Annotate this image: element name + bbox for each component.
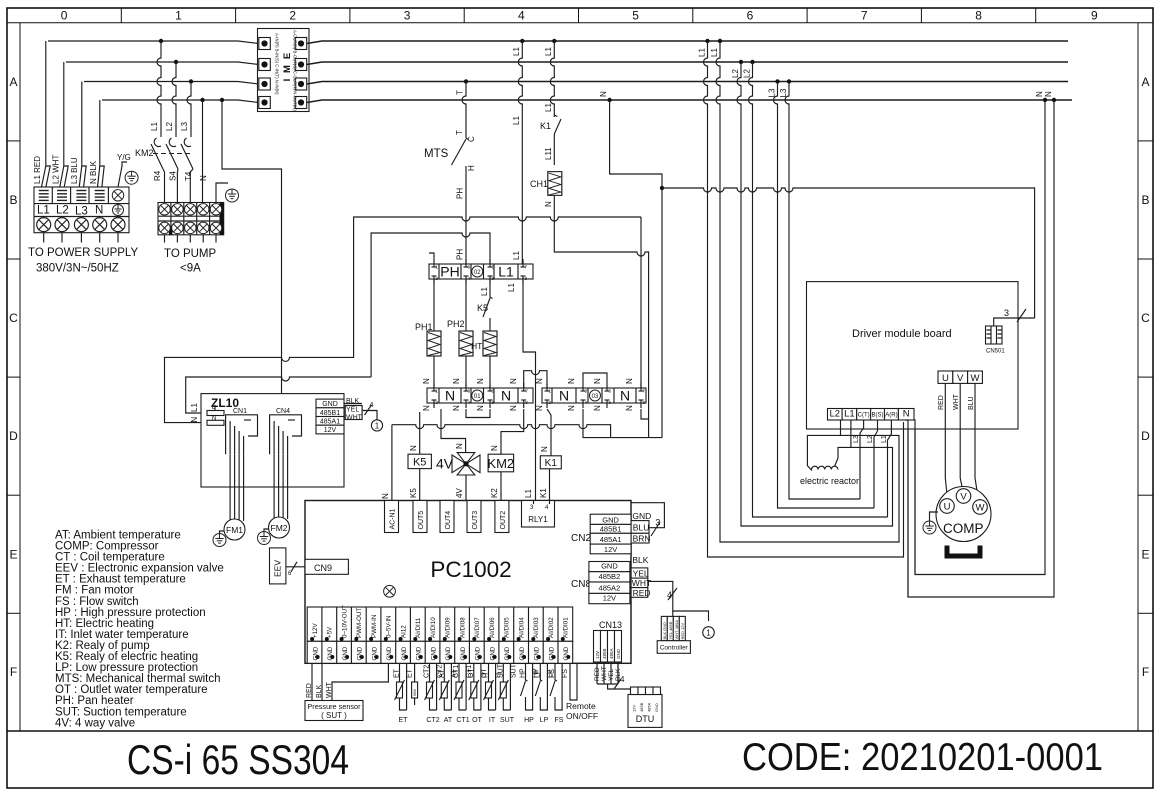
wire CN501 to N feed (994, 318, 1035, 326)
modem DTU (628, 695, 662, 728)
svg-text:C: C (1141, 311, 1150, 325)
svg-text:N: N (476, 405, 485, 411)
svg-text:485A: 485A (609, 648, 614, 659)
svg-text:6: 6 (747, 9, 754, 23)
svg-text:PWM-OUT: PWM-OUT (356, 608, 363, 638)
svg-text:L1: L1 (37, 205, 50, 217)
svg-text:CN9: CN9 (314, 563, 332, 573)
svg-text:ON/OFF: ON/OFF (566, 711, 598, 721)
earth COMP (930, 512, 939, 522)
svg-text:C(T): C(T) (858, 413, 870, 419)
board PC1002 (305, 501, 631, 664)
thermistor sensors (400, 663, 407, 710)
svg-text:L1: L1 (544, 103, 553, 112)
svg-text:T4: T4 (184, 171, 193, 181)
svg-text:OUT3: OUT3 (472, 511, 479, 530)
svg-text:CT1: CT1 (453, 665, 460, 678)
wire N link H217 (165, 217, 642, 423)
fan motor FM1 (224, 519, 245, 540)
svg-text:BLK: BLK (632, 555, 648, 565)
svg-text:L1: L1 (524, 489, 533, 498)
svg-text:380V/3N~/50HZ: 380V/3N~/50HZ (36, 263, 119, 275)
svg-text:U: U (942, 373, 949, 384)
svg-text:OUT5: OUT5 (418, 511, 425, 530)
svg-text:485B1: 485B1 (600, 524, 622, 533)
svg-text:L3: L3 (768, 88, 777, 97)
svg-text:RED: RED (633, 588, 651, 598)
svg-text:N: N (422, 378, 431, 384)
svg-text:02: 02 (474, 270, 481, 276)
svg-text:PH: PH (440, 264, 459, 280)
svg-text:L1: L1 (544, 47, 553, 56)
terminal strip N-N (01) (427, 383, 533, 408)
svg-text:CN501: CN501 (986, 349, 1005, 355)
svg-text:W: W (976, 503, 985, 514)
lamp symbol (384, 585, 396, 597)
wire hook pin1 (429, 253, 434, 259)
svg-text:CT2: CT2 (426, 717, 439, 724)
svg-text:SUT: SUT (500, 717, 515, 724)
svg-text:E: E (1141, 547, 1149, 561)
svg-text:LP: LP (534, 669, 541, 678)
svg-text:Pressure sensor: Pressure sensor (307, 702, 361, 711)
svg-text:CN2: CN2 (571, 533, 591, 544)
pressure sensor box (305, 701, 363, 721)
svg-text:01: 01 (474, 394, 481, 400)
svg-text:SUT: SUT (510, 663, 517, 678)
svg-text:WHT: WHT (601, 666, 608, 681)
relay coil KM2 (488, 454, 513, 472)
svg-text:IT: IT (489, 717, 496, 724)
wire loop N03 pins 3-5 (583, 373, 607, 383)
wire K1 coil feed from pin2 (547, 409, 551, 456)
svg-text:E: E (282, 53, 293, 59)
svg-text:FM1: FM1 (226, 525, 243, 535)
svg-text:FM2: FM2 (271, 523, 288, 533)
svg-text:AT: AT (444, 717, 453, 724)
pump earth wire (216, 183, 228, 203)
svg-text:N: N (409, 445, 418, 451)
title block (7, 731, 1153, 783)
svg-text:N: N (625, 405, 634, 411)
wire N distribution (392, 425, 611, 438)
relay RLY1 (522, 501, 555, 528)
svg-text:T: T (455, 130, 464, 135)
svg-text:B(S): B(S) (872, 413, 884, 419)
svg-text:K1: K1 (540, 121, 551, 131)
remote on/off wires (570, 663, 577, 700)
wire N cell to comp loop (906, 420, 908, 597)
wire N feed horizontal to CN501 riser (662, 188, 1035, 318)
compressor mount bracket (947, 546, 980, 557)
svg-text:CH1: CH1 (530, 179, 548, 189)
svg-text:0~10V-OUT: 0~10V-OUT (342, 605, 349, 638)
bus line L2 (307, 62, 1068, 65)
wire pin2 to PH1 (433, 279, 435, 331)
svg-text:C: C (9, 311, 18, 325)
svg-text:V: V (960, 492, 967, 503)
svg-text:RED: RED (594, 667, 601, 681)
svg-text:N: N (381, 493, 390, 499)
svg-text:AI/DI10: AI/DI10 (430, 617, 437, 638)
wires RED WHT BLU to compressor (945, 383, 947, 499)
node 1 (to controller) (371, 420, 382, 431)
inductor electric reactor (812, 466, 838, 469)
svg-text:N: N (1035, 91, 1044, 97)
svg-text:RED: RED (306, 683, 313, 698)
svg-text:OT: OT (472, 717, 482, 724)
svg-text:AI12: AI12 (401, 625, 408, 638)
svg-text:OUT2: OUT2 (500, 511, 507, 530)
svg-text:L1: L1 (698, 48, 707, 57)
wire N drop to driver supply (607, 98, 611, 102)
svg-text:F: F (10, 665, 17, 679)
svg-text:K5: K5 (477, 303, 488, 313)
svg-text:PH: PH (456, 249, 465, 260)
compressor COMP (936, 487, 991, 542)
svg-text:M: M (282, 65, 293, 73)
svg-text:485A1: 485A1 (320, 419, 340, 426)
svg-text:4: 4 (667, 590, 672, 600)
PC1002 output pins (385, 501, 399, 533)
svg-text:A-OUT(R) B-OUT(S) C-OUT(T) N-O: A-OUT(R) B-OUT(S) C-OUT(T) N-OUT(N) (293, 30, 298, 111)
controller connector (661, 616, 685, 640)
power supply terminal block X1 (34, 187, 129, 243)
svg-text:4V: 4 way valve: 4V: 4 way valve (55, 717, 135, 729)
svg-text:4: 4 (370, 402, 374, 409)
svg-text:7: 7 (861, 9, 868, 23)
heater HT (483, 331, 497, 356)
wire bridge N01 pin7 to N03 pin1 (524, 371, 547, 388)
svg-text:N: N (95, 205, 103, 217)
svg-text:L1: L1 (512, 251, 521, 260)
svg-text:A(R): A(R) (885, 413, 897, 419)
wire loop L1b (720, 184, 899, 542)
wire CH1 to N terminal 03 pin8 (554, 195, 648, 437)
svg-text:CN1: CN1 (233, 408, 247, 415)
svg-text:N: N (452, 378, 461, 384)
svg-text:RLY1: RLY1 (528, 515, 548, 524)
svg-text:+12V: +12V (312, 623, 319, 638)
relay coil K1 (540, 456, 561, 469)
svg-text:I: I (282, 79, 293, 82)
svg-text:LP: LP (540, 717, 549, 724)
svg-text:HP: HP (520, 668, 527, 678)
svg-text:12V: 12V (603, 594, 616, 603)
svg-text:BLK: BLK (316, 684, 323, 698)
wires CN1 to FM1 (230, 421, 244, 454)
svg-text:SUT: SUT (497, 663, 504, 678)
wire N03 pin4 to N link (583, 409, 662, 438)
wires ZL10 comm group (344, 403, 362, 405)
svg-text:KM2: KM2 (135, 148, 154, 158)
svg-text:CT2: CT2 (424, 665, 431, 678)
svg-text:AI/DI03: AI/DI03 (533, 617, 540, 638)
svg-text:L3: L3 (180, 122, 189, 131)
svg-text:PC1002: PC1002 (430, 557, 511, 582)
valve EEV (270, 548, 286, 584)
svg-text:N: N (490, 445, 499, 451)
svg-text:T: T (456, 90, 465, 95)
svg-text:L1: L1 (480, 287, 489, 296)
svg-text:BLK GND: BLK GND (662, 622, 667, 640)
bus line L1 (307, 41, 1068, 44)
EMI filter module (258, 29, 310, 112)
svg-text:L11: L11 (544, 147, 553, 160)
svg-text:485B2: 485B2 (599, 572, 621, 581)
svg-text:N: N (903, 409, 910, 420)
svg-text:RED: RED (938, 395, 945, 410)
svg-text:68K: 68K (412, 689, 417, 696)
wire 4V N riser (441, 409, 466, 452)
board Driver module (807, 282, 1019, 429)
svg-text:A: A (1141, 75, 1149, 89)
svg-text:electric reactor: electric reactor (800, 476, 859, 486)
svg-text:485A2: 485A2 (599, 583, 621, 592)
board ZL10 (201, 394, 344, 487)
wire pin4 to PH2 (465, 279, 467, 331)
svg-text:L2 WHT: L2 WHT (52, 155, 61, 184)
wire L2 to reactor (807, 420, 840, 471)
svg-text:TO POWER SUPPLY: TO POWER SUPPLY (28, 247, 138, 259)
svg-text:4: 4 (518, 9, 525, 23)
connector ZL10 RS485 (316, 399, 344, 434)
svg-text:V: V (957, 373, 964, 384)
svg-text:WHT: WHT (953, 393, 960, 410)
svg-text:BLU: BLU (633, 523, 650, 533)
svg-text:CN13: CN13 (599, 620, 622, 630)
svg-text:YEL 485B: YEL 485B (668, 621, 673, 639)
wire N03 pin8 elbow (641, 409, 649, 419)
svg-text:N: N (445, 388, 455, 404)
svg-text:1: 1 (375, 421, 380, 430)
wire pair L1 to driver (705, 39, 709, 43)
svg-text:N: N (455, 443, 464, 449)
svg-text:L2: L2 (867, 435, 874, 443)
wires CN13 to DTU (596, 662, 598, 684)
svg-text:PH1: PH1 (415, 322, 433, 332)
heater PH2 (459, 331, 473, 356)
svg-text:N: N (535, 378, 544, 384)
svg-text:PWM-IN: PWM-IN (371, 615, 378, 638)
svg-text:WHT: WHT (326, 681, 333, 698)
svg-text:K5: K5 (409, 488, 418, 498)
terminal strip N-N (03) (542, 383, 646, 408)
svg-text:1: 1 (706, 629, 711, 638)
svg-text:CS-i 65 SS304: CS-i 65 SS304 (127, 736, 349, 783)
svg-text:L2: L2 (165, 122, 174, 131)
wires CN4 to FM2 (274, 421, 288, 454)
connector CN501 (986, 326, 1006, 355)
svg-text:U: U (944, 502, 951, 513)
svg-text:L3 BLU: L3 BLU (70, 157, 79, 184)
wire L1 drop to K1 (552, 39, 556, 43)
svg-text:HP: HP (524, 717, 534, 724)
svg-text:EEV: EEV (273, 560, 283, 577)
svg-text:L3: L3 (75, 206, 88, 218)
wire loop L1a (708, 184, 904, 557)
svg-text:12V: 12V (632, 705, 637, 712)
svg-text:IT: IT (483, 671, 490, 678)
connector CN9 (305, 559, 348, 574)
svg-text:K2: K2 (490, 488, 499, 498)
svg-text:YEL: YEL (608, 668, 615, 681)
wire CN2 bus with 3 mark (631, 503, 664, 528)
svg-text:4V: 4V (455, 488, 464, 498)
svg-text:GND: GND (602, 515, 619, 524)
svg-text:L1: L1 (844, 409, 855, 420)
svg-text:L1: L1 (190, 403, 199, 412)
svg-text:N: N (540, 446, 549, 452)
svg-text:YEL: YEL (633, 568, 649, 578)
svg-text:WHT 485A: WHT 485A (674, 620, 679, 640)
svg-text:N: N (559, 388, 569, 404)
earth FM2 (264, 529, 269, 532)
svg-text:BRN: BRN (633, 534, 651, 544)
svg-text:AI/DI07: AI/DI07 (474, 617, 481, 638)
svg-text:AI/DI05: AI/DI05 (504, 617, 511, 638)
svg-text:N: N (422, 405, 431, 411)
svg-text:FS: FS (555, 717, 564, 724)
power feed wires L1 L2 L3 N Y/G (33, 41, 259, 187)
svg-text:L3: L3 (779, 88, 788, 97)
svg-text:D: D (1141, 429, 1150, 443)
svg-text:L1: L1 (710, 48, 719, 57)
svg-text:8: 8 (975, 9, 982, 23)
wire T drop to MTS (464, 79, 468, 83)
pressure sensor wires RED BLK WHT (312, 663, 388, 700)
svg-text:AI/DI01: AI/DI01 (563, 617, 570, 638)
svg-text:0: 0 (61, 9, 68, 23)
controller box (657, 641, 690, 654)
svg-text:L2: L2 (830, 409, 841, 420)
earth symbol (power) (125, 171, 138, 184)
svg-text:FS: FS (562, 669, 569, 678)
wires heaters to N terminal 01 (433, 356, 435, 388)
node 1 (controller side) (703, 627, 715, 639)
svg-text:N: N (593, 378, 602, 384)
svg-text:N: N (620, 388, 630, 404)
wire loop L3a (778, 184, 875, 508)
svg-text:ET: ET (399, 717, 409, 724)
svg-text:N: N (199, 175, 208, 181)
svg-text:B: B (1141, 193, 1149, 207)
svg-text:DTU: DTU (636, 714, 655, 724)
svg-text:WHT: WHT (632, 578, 651, 588)
svg-text:L2: L2 (743, 69, 752, 78)
svg-text:L2: L2 (731, 69, 740, 78)
svg-text:OT: OT (468, 668, 475, 678)
svg-text:N: N (1044, 91, 1053, 97)
svg-text:N: N (452, 405, 461, 411)
svg-text:N: N (567, 378, 576, 384)
wire L1 to reactor (835, 420, 851, 467)
svg-text:N: N (509, 405, 518, 411)
svg-text:<9A: <9A (180, 263, 201, 275)
svg-text:L1: L1 (512, 47, 521, 56)
svg-text:AI/DI04: AI/DI04 (519, 617, 526, 638)
svg-text:9: 9 (1091, 9, 1098, 23)
svg-text:RED 12V: RED 12V (680, 622, 685, 639)
svg-text:03: 03 (592, 394, 599, 400)
svg-text:N: N (212, 416, 216, 422)
svg-text:YEL: YEL (346, 407, 359, 414)
wire loop N01 pins 4-6 (466, 409, 490, 418)
svg-text:L3: L3 (853, 435, 860, 443)
wire pair N to compressor loops (1043, 98, 1047, 102)
switch K1 (554, 115, 561, 165)
svg-text:ET: ET (407, 668, 414, 678)
contactor KM2 poles (135, 39, 208, 203)
wire CN8 to controller and node 1 (648, 581, 709, 621)
svg-text:MTS: MTS (424, 148, 449, 160)
svg-text:WHT: WHT (346, 415, 363, 422)
svg-text:L1: L1 (498, 264, 514, 280)
svg-text:GND: GND (616, 648, 621, 659)
svg-text:PH: PH (456, 188, 465, 199)
svg-text:H: H (467, 165, 476, 171)
svg-text:3: 3 (404, 9, 411, 23)
svg-text:N: N (544, 201, 553, 207)
svg-text:CODE: 20210201-0001: CODE: 20210201-0001 (742, 736, 1103, 779)
svg-text:Controller: Controller (660, 645, 689, 652)
svg-text:( SUT ): ( SUT ) (321, 711, 347, 720)
wire N to pump (200, 98, 204, 102)
svg-text:N: N (190, 417, 199, 423)
svg-text:5: 5 (632, 9, 639, 23)
svg-text:ET: ET (394, 668, 401, 678)
svg-text:N: N (501, 388, 511, 404)
svg-text:N: N (599, 91, 608, 97)
svg-text:GND: GND (632, 511, 651, 521)
wire L1 drop to terminal 02 (520, 39, 524, 43)
svg-text:B: B (9, 193, 17, 207)
svg-text:AI/DI11: AI/DI11 (415, 617, 422, 638)
svg-text:BLU: BLU (968, 396, 975, 410)
svg-text:CN4: CN4 (276, 408, 290, 415)
svg-text:0~5V-IN: 0~5V-IN (386, 615, 393, 638)
svg-text:AT: AT (438, 669, 445, 678)
svg-text:12V: 12V (595, 651, 600, 659)
heater CH1 (548, 172, 562, 196)
svg-text:485B: 485B (602, 648, 607, 659)
svg-text:N: N (476, 378, 485, 384)
switches HP LP FS (521, 663, 533, 710)
svg-text:HT: HT (471, 341, 482, 351)
svg-text:AC-N1: AC-N1 (390, 508, 397, 529)
4-way valve 4V (452, 453, 480, 475)
fan motor FM2 (269, 517, 290, 538)
svg-text:L1 RED: L1 RED (33, 156, 42, 184)
terminal L2 L1 C(T) B(S) A(R) N (828, 409, 915, 421)
svg-text:N BLK: N BLK (89, 160, 98, 184)
svg-text:E: E (9, 547, 17, 561)
heater PH1 (427, 331, 441, 356)
relay coil K5 (419, 412, 421, 454)
svg-text:N: N (509, 378, 518, 384)
svg-text:AI/DI02: AI/DI02 (548, 617, 555, 638)
svg-text:GND: GND (601, 562, 618, 571)
svg-text:L1: L1 (507, 283, 516, 292)
terminal strip PH-L1 (02) (429, 259, 533, 284)
svg-text:4V: 4V (436, 456, 454, 472)
svg-text:N: N (625, 378, 634, 384)
earth FM1 (220, 531, 225, 534)
terminal U V W (938, 371, 982, 384)
wire loop L3b (789, 184, 860, 499)
svg-text:A-IN(R) B-IN(S) C-IN(T) N-IN(N: A-IN(R) B-IN(S) C-IN(T) N-IN(N) (275, 33, 280, 95)
svg-text:Driver module board: Driver module board (852, 328, 952, 340)
